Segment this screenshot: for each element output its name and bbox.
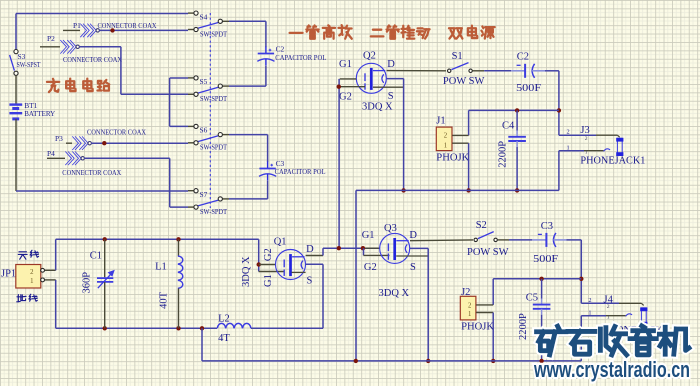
svg-text:G2: G2: [339, 91, 352, 102]
inductor L2 4T: [217, 314, 323, 345]
connector J1 PHOJK: [436, 115, 469, 163]
svg-text:POW SW: POW SW: [467, 247, 509, 258]
bottom common rail: [202, 316, 581, 363]
svg-text:S2: S2: [476, 220, 487, 231]
svg-text:C4: C4: [502, 120, 515, 131]
mid rail wire: [356, 151, 559, 361]
wire V1 rail to J1 and C4: [469, 108, 559, 135]
svg-text:SW-SPDT: SW-SPDT: [200, 29, 227, 38]
svg-text:G1: G1: [263, 274, 274, 287]
switch S5 SW-SPDT: [188, 76, 229, 103]
node junction P1 wire: [99, 28, 188, 32]
wire S6 common to C3: [229, 135, 268, 162]
svg-text:1: 1: [468, 311, 471, 318]
node junction P3 wire to S6 bottom: [91, 141, 188, 145]
svg-text:2: 2: [468, 302, 472, 309]
wire top rail from S3 to S4: [16, 14, 188, 52]
wire J2 pin1 down to bottom rail: [491, 313, 495, 364]
wire S4 common to C2: [229, 21, 266, 47]
svg-text:J1: J1: [436, 115, 445, 126]
wire S2 to C3 500F: [509, 239, 532, 241]
svg-text:P3: P3: [55, 134, 63, 143]
svg-text:C5: C5: [526, 292, 538, 303]
svg-text:P1: P1: [73, 21, 81, 30]
svg-text:S5: S5: [200, 77, 208, 86]
transistor Q3 3DQ X: [362, 223, 418, 299]
variable capacitor C1: [82, 239, 115, 328]
svg-text:SW-SPDT: SW-SPDT: [200, 94, 227, 103]
wire C2 to V1 node: [545, 71, 561, 135]
svg-text:360P: 360P: [82, 272, 93, 294]
svg-text:J3: J3: [580, 125, 589, 136]
inductor L1 40T: [155, 239, 183, 328]
svg-text:1: 1: [30, 278, 33, 285]
label 地线 ground wire: [17, 294, 38, 302]
connector JP1: [1, 265, 56, 289]
battery BT1: [9, 101, 55, 119]
svg-text:Q1: Q1: [274, 237, 287, 248]
switch S7 SW-SPDT: [188, 189, 229, 216]
svg-text:G1: G1: [339, 59, 352, 70]
svg-text:D: D: [409, 230, 417, 241]
svg-text:2: 2: [567, 129, 570, 136]
wire Q1 drain up to driver node: [306, 248, 380, 255]
svg-text:C1: C1: [90, 251, 102, 262]
switch S6 SW-SPDT: [188, 124, 229, 151]
svg-text:BATTERY: BATTERY: [24, 109, 56, 118]
svg-text:C3: C3: [541, 221, 553, 232]
svg-text:3DQ X: 3DQ X: [241, 256, 252, 287]
svg-text:SW-SPST: SW-SPST: [17, 60, 41, 69]
svg-text:1: 1: [588, 309, 591, 316]
svg-text:CONNECTOR COAX: CONNECTOR COAX: [63, 55, 123, 64]
svg-text:CONNECTOR COAX: CONNECTOR COAX: [98, 21, 158, 30]
svg-text:2: 2: [30, 269, 34, 276]
svg-text:SW-SPDT: SW-SPDT: [200, 143, 227, 152]
switch S2 POW SW: [467, 220, 509, 258]
wire P4 to S7 bottom: [84, 158, 188, 207]
wire C3 to V2 node: [566, 240, 583, 303]
phone jack J4 PHONEJACK1: [581, 295, 668, 336]
svg-text:P4: P4: [47, 149, 55, 158]
switch S3 SW-SPST: [10, 50, 41, 76]
capacitor C5 2200P: [518, 279, 550, 361]
svg-text:S: S: [307, 275, 313, 286]
svg-text:1: 1: [444, 142, 447, 149]
svg-text:PHONEJACK1: PHONEJACK1: [580, 156, 645, 167]
wire Q1 source to tank bottom: [292, 264, 324, 328]
svg-text:www.crystalradio.cn: www.crystalradio.cn: [533, 357, 690, 382]
svg-text:D: D: [306, 244, 314, 255]
wire Q3 drain to S2: [410, 239, 473, 242]
svg-text:40T: 40T: [159, 291, 170, 309]
switch S4 SW-SPDT: [188, 11, 229, 38]
svg-text:Q3: Q3: [384, 223, 397, 234]
svg-text:Q2: Q2: [363, 50, 376, 61]
svg-text:P2: P2: [47, 34, 55, 43]
wire S5 top to S6 top: [170, 78, 188, 126]
wire S1 to C2 500F: [484, 70, 511, 72]
svg-text:S1: S1: [452, 51, 463, 62]
capacitor C2 CAPACITOR POL: [257, 45, 326, 66]
svg-text:J2: J2: [461, 287, 470, 298]
svg-text:2: 2: [444, 133, 448, 140]
svg-text:SW-SPDT: SW-SPDT: [200, 207, 227, 216]
svg-text:500F: 500F: [516, 83, 541, 94]
wire Q2 drain to S1: [387, 70, 447, 72]
transistor Q1 3DQ X: [241, 237, 314, 287]
svg-text:G2: G2: [364, 262, 377, 273]
svg-text:4T: 4T: [218, 333, 230, 344]
wire Q2 source down to mid rail: [373, 79, 406, 193]
svg-text:1: 1: [607, 315, 610, 321]
svg-text:3DQ X: 3DQ X: [379, 288, 410, 299]
wire C2 to S5 common: [229, 66, 266, 86]
svg-text:J4: J4: [604, 295, 614, 306]
svg-text:CAPACITOR POL: CAPACITOR POL: [275, 53, 326, 62]
svg-text:PHOJK: PHOJK: [436, 153, 469, 164]
connector P1 CONNECTOR COAX: [63, 24, 99, 38]
wire Q2 gate node (G1 G2 tied, down to driver node): [337, 79, 365, 251]
capacitor C2 500F: [511, 51, 545, 94]
wire C3 to S7 common: [229, 181, 268, 199]
svg-text:1: 1: [567, 144, 570, 151]
wire battery negative to S7 top: [16, 119, 188, 191]
wire V2 rail to J2 and C5: [493, 277, 581, 305]
svg-text:G2: G2: [263, 248, 274, 261]
capacitor C3 CAPACITOR POL: [259, 159, 326, 181]
svg-text:CONNECTOR COAX: CONNECTOR COAX: [87, 128, 147, 137]
capacitor C3 500F: [532, 221, 566, 265]
wire J1 pin1 down to mid rail: [466, 143, 470, 192]
svg-text:3DQ X: 3DQ X: [362, 102, 393, 113]
wire JP1 pin1 to tank bottom rail: [56, 280, 217, 331]
wire P2 to S5 bottom: [79, 47, 188, 95]
connector J2 PHOJK: [460, 287, 494, 333]
switch S1 POW SW: [443, 51, 485, 87]
svg-text:2: 2: [588, 297, 591, 304]
svg-text:2: 2: [585, 136, 588, 142]
svg-text:POW SW: POW SW: [443, 76, 485, 87]
svg-text:2200P: 2200P: [498, 141, 509, 168]
driver node wires to Q3 gates: [361, 246, 390, 255]
svg-text:CONNECTOR COAX: CONNECTOR COAX: [62, 168, 122, 177]
svg-text:L2: L2: [218, 314, 230, 325]
title 充电电路 (charging circuit): [47, 79, 109, 92]
connector P3 CONNECTOR COAX: [66, 136, 91, 150]
transistor Q2 3DQ X: [339, 50, 395, 112]
svg-text:D: D: [387, 59, 395, 70]
svg-text:S: S: [410, 262, 416, 273]
phone jack J3 PHONEJACK1: [559, 125, 646, 166]
svg-text:2200P: 2200P: [518, 313, 529, 340]
connector P2 CONNECTOR COAX: [40, 40, 79, 54]
svg-text:PHOJK: PHOJK: [461, 321, 494, 332]
svg-text:CAPACITOR POL: CAPACITOR POL: [275, 167, 326, 176]
label 天线 antenna: [18, 250, 38, 259]
watermark text: [537, 326, 689, 355]
capacitor C4 2200P: [498, 110, 526, 192]
title 一管高放 二管推动 双电源: [290, 25, 495, 39]
svg-text:500F: 500F: [533, 254, 558, 265]
svg-text:G1: G1: [362, 230, 375, 241]
wire S3 to battery: [15, 75, 17, 104]
wire Q3 source down to bottom rail: [396, 248, 430, 363]
svg-text:C2: C2: [517, 51, 529, 62]
mechanical linkage dashed line: [209, 13, 211, 208]
wire tank rail to Q1 gates: [257, 239, 285, 271]
connector P4 CONNECTOR COAX: [47, 152, 84, 166]
wire JP1 pin2 to tank top rail: [56, 237, 259, 270]
svg-text:S4: S4: [200, 12, 208, 21]
svg-text:S6: S6: [200, 126, 208, 135]
svg-text:JP1: JP1: [1, 268, 16, 279]
svg-text:L1: L1: [155, 261, 167, 272]
svg-text:S7: S7: [200, 190, 208, 199]
